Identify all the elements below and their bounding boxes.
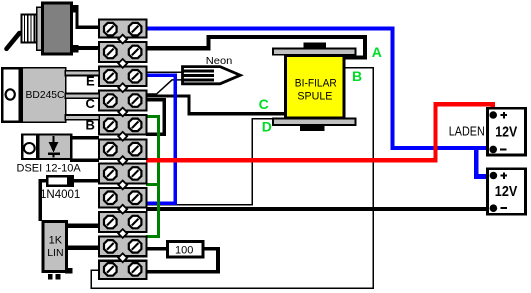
svg-text:C: C <box>86 96 96 111</box>
neon lamp NE1 outline <box>183 67 241 84</box>
wire switch bottom to terminal row2 <box>76 46 99 50</box>
wire resistor 100 to terminal row11 <box>146 249 218 272</box>
svg-text:E: E <box>86 74 95 89</box>
wire green bus terminal row5 to row10 <box>146 117 158 237</box>
svg-text:1N4001: 1N4001 <box>40 189 80 201</box>
svg-text:DSEI 12-10A: DSEI 12-10A <box>17 163 82 175</box>
switch S1 bushing <box>22 14 37 42</box>
wire B (spule right to terminal row11 left, long thin loop) <box>91 68 373 288</box>
svg-text:1K: 1K <box>49 234 63 246</box>
svg-text:BI-FILAR: BI-FILAR <box>295 77 337 89</box>
wire switch top to terminal row1 <box>77 8 99 27</box>
svg-text:B: B <box>352 68 362 84</box>
svg-text:Neon: Neon <box>206 56 233 67</box>
wire 1N4001 left lead to potentiometer <box>40 181 47 221</box>
diode D1 DSEI package <box>22 134 71 160</box>
wire red terminal row6 to battery 1 plus <box>146 104 493 160</box>
switch S1 lever <box>7 33 20 49</box>
wire DSEI top to terminal row6 <box>70 136 99 139</box>
svg-text:B: B <box>86 118 95 133</box>
svg-text:C: C <box>259 96 269 112</box>
svg-text:BD245C: BD245C <box>26 89 65 101</box>
diode D2 1N4001 body <box>47 176 73 185</box>
svg-text:D: D <box>262 119 272 135</box>
wire blue terminal row1 to battery 1 minus <box>146 28 493 148</box>
wire terminal row10 to resistor 100 <box>146 247 167 250</box>
svg-text:12V: 12V <box>495 125 517 141</box>
coil L1 top stub <box>304 42 327 48</box>
wire D (spule bottom cap to terminal row8) <box>146 119 274 205</box>
svg-text:LIN: LIN <box>47 247 63 259</box>
coil L1 top cap <box>273 49 356 55</box>
neon lamp electrode bars <box>182 71 214 80</box>
svg-text:LADEN: LADEN <box>449 125 485 139</box>
coil L1 body BI-FILAR SPULE <box>286 56 345 119</box>
wire C (terminal row4 right to spule bottom, yellow body left) <box>146 96 285 114</box>
wire A (terminal row2 right to spule top cap) <box>146 37 365 57</box>
wire blue branch to battery 2 plus <box>476 148 493 177</box>
wire blue terminal row3 to terminal row8 <box>146 75 175 203</box>
wire terminal row8 to battery 2 minus (long black) <box>146 207 493 211</box>
transistor Q1 lead E <box>65 71 99 76</box>
transistor Q1 lead C <box>65 93 99 98</box>
transistor Q1 BD245C package <box>2 67 65 123</box>
wire neon electrode 2 (terminal row4 via diagonal to neon) <box>146 80 182 94</box>
wire neon electrode 1 (terminal row3 to neon) <box>146 71 182 73</box>
resistor R1 100 <box>168 242 204 258</box>
coil L1 bottom cap <box>273 119 356 125</box>
wire pot top terminal to terminal row9 <box>64 224 99 228</box>
switch S1 collar <box>37 7 42 50</box>
coil L1 bottom stub <box>300 125 324 131</box>
wire pot wiper to terminal row10 <box>64 245 99 249</box>
switch S1 terminal top <box>72 5 79 12</box>
terminal strip X1 (11-way screw terminal) <box>99 20 146 280</box>
battery BT1 12V (LADEN) <box>488 108 526 155</box>
svg-text:A: A <box>372 44 382 60</box>
wire DSEI bottom to terminal row6 <box>70 159 99 162</box>
wire green branch terminal row7 <box>146 183 158 186</box>
switch S1 terminal bottom <box>72 45 79 52</box>
wire jumper row4 to row6 <box>146 100 164 135</box>
svg-text:SPULE: SPULE <box>297 90 332 102</box>
transistor Q1 lead B <box>65 115 99 120</box>
svg-text:12V: 12V <box>495 184 518 200</box>
switch S1 body <box>43 3 72 54</box>
potentiometer R2 1K LIN <box>43 222 72 280</box>
battery BT2 12V <box>488 169 526 215</box>
wire 1N4001 right lead to terminal row7 <box>73 179 99 182</box>
svg-text:100: 100 <box>175 244 193 256</box>
